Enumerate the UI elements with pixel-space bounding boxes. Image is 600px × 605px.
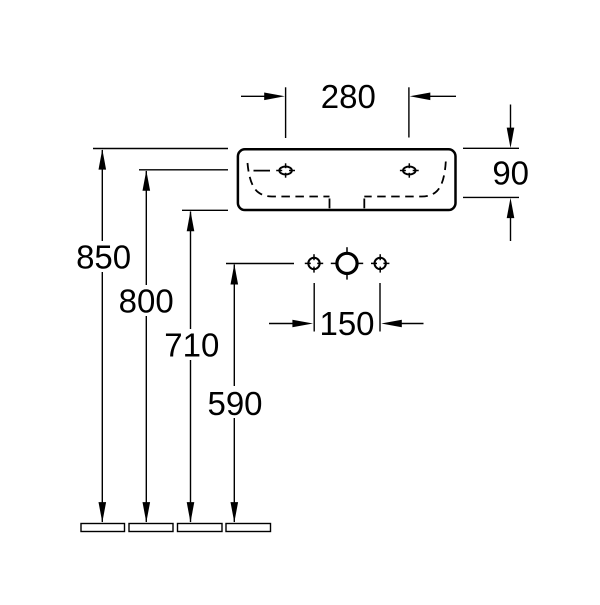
dim 280 extension line right xyxy=(408,87,410,137)
basin outline xyxy=(238,149,456,210)
svg-text:850: 850 xyxy=(76,238,131,275)
dim 150 right arrow xyxy=(381,320,423,328)
label 800 xyxy=(119,282,174,319)
floor tile 4 xyxy=(226,524,271,532)
dim 850 line xyxy=(101,150,103,522)
dim 590 line xyxy=(233,265,235,523)
floor tile 3 xyxy=(178,524,223,532)
faucet hole small right xyxy=(371,254,389,272)
dim 280 extension line left xyxy=(285,87,287,138)
floor tile 1 xyxy=(81,524,125,532)
dim 710 extension line xyxy=(182,209,228,211)
inner bowl dashed contour right xyxy=(364,162,446,209)
dim 90 bottom arrow xyxy=(507,198,515,241)
svg-text:710: 710 xyxy=(164,326,219,363)
faucet hole small left xyxy=(305,254,323,272)
dim 710 bottom arrow xyxy=(187,502,195,522)
dim 90 top arrow xyxy=(507,105,515,149)
dim 850 top arrow xyxy=(99,149,107,169)
svg-text:800: 800 xyxy=(119,282,174,319)
label 710 xyxy=(164,326,219,363)
dim 150 left arrow xyxy=(269,320,313,328)
label 590 xyxy=(207,385,263,422)
svg-text:90: 90 xyxy=(492,154,529,191)
dim 590 bottom arrow xyxy=(231,502,239,522)
label 90 xyxy=(492,154,529,191)
dim 150 extension line left xyxy=(313,283,315,332)
dim 800 bottom arrow xyxy=(143,502,151,522)
inner rim solid segment xyxy=(254,170,271,172)
dim 710 line xyxy=(190,212,192,523)
dim 800 top arrow xyxy=(143,170,151,190)
tap hole right xyxy=(400,163,419,177)
dim 800 line xyxy=(145,171,147,522)
dim 90 extension line bottom xyxy=(463,196,519,198)
dim 280 right arrow xyxy=(410,93,456,101)
dim 710 top arrow xyxy=(187,211,195,231)
label 850 xyxy=(76,238,131,275)
tap hole left xyxy=(276,163,295,177)
dim 90 extension line top xyxy=(463,147,519,149)
floor tile 2 xyxy=(129,524,173,532)
dim 850 extension line xyxy=(93,148,228,150)
label 280 xyxy=(321,78,376,115)
dim 850 bottom arrow xyxy=(99,502,107,522)
svg-text:150: 150 xyxy=(319,305,374,342)
inner bowl dashed contour left xyxy=(248,163,330,208)
dim 280 left arrow xyxy=(241,93,285,101)
svg-text:590: 590 xyxy=(207,385,262,422)
dim 590 top arrow xyxy=(231,264,239,284)
label 150 xyxy=(319,305,374,342)
dim 150 extension line right xyxy=(379,283,381,332)
faucet hole big center xyxy=(331,247,363,279)
svg-text:280: 280 xyxy=(321,78,376,115)
dim 590 extension line xyxy=(226,263,294,265)
dim 800 extension line xyxy=(139,169,228,171)
